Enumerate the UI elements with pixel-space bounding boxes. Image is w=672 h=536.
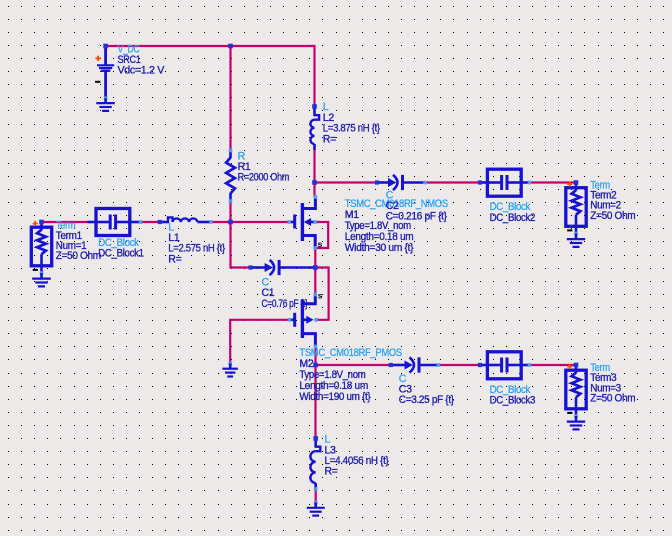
svg-text:R=2000 Ohm: R=2000 Ohm	[238, 172, 290, 184]
node L3 top	[313, 436, 318, 441]
pin M1 gate	[287, 220, 291, 224]
label M2 source s	[318, 291, 323, 301]
svg-text:Z=50 Ohm: Z=50 Ohm	[590, 210, 635, 222]
wire rail to R1	[229, 46, 231, 151]
ground of Term2	[574, 232, 578, 236]
node M2 drain junction	[313, 363, 318, 368]
pin M2 source	[314, 293, 318, 297]
wire L2 to M1 drain	[313, 150, 315, 197]
ground of Term3	[574, 414, 578, 418]
wire input row Term1-DC_Block1	[42, 221, 88, 223]
node rail-R1	[228, 44, 233, 49]
svg-text:R=: R=	[325, 466, 338, 478]
wire L1 to M1 gate	[211, 221, 289, 223]
node drain junction	[312, 180, 317, 185]
pin DC_Block2 left	[478, 180, 482, 184]
wire M2 drain down to L3	[314, 347, 316, 439]
svg-text:s: s	[318, 239, 323, 249]
DC block DC_Block2	[479, 169, 531, 196]
transistor M2 PMOS	[290, 295, 316, 347]
svg-text:Width=190 um {t}: Width=190 um {t}	[299, 391, 371, 403]
node Term3 top	[574, 363, 579, 368]
label Term2	[590, 179, 635, 222]
label M2	[299, 347, 402, 403]
pin M1 bulk	[313, 220, 317, 224]
node L1 left	[158, 220, 162, 224]
wire DC_Block1-L1	[141, 221, 159, 223]
pin M2 bulk	[314, 318, 318, 322]
DC block DC_Block3	[479, 352, 531, 379]
label L2	[323, 101, 381, 145]
svg-text:R=: R=	[168, 253, 181, 265]
label SRC1	[118, 43, 166, 76]
wire C2 to DC_Block2	[425, 181, 480, 183]
ground of SRC1	[104, 97, 108, 101]
label L1	[168, 221, 225, 265]
label M1	[345, 198, 448, 254]
pin DC_Block2 right	[528, 181, 532, 185]
inductor L2	[310, 107, 319, 150]
label Term3	[590, 362, 635, 405]
pin R1 top	[229, 149, 233, 153]
node source junction	[313, 265, 318, 270]
pin L1 right	[209, 220, 213, 224]
pin C2 right	[423, 181, 427, 185]
ground of Term1	[40, 271, 44, 275]
inductor L3	[310, 439, 320, 490]
port Term2	[566, 181, 586, 233]
label M1 source s	[318, 239, 323, 249]
svg-text:C=0.216 pF {t}: C=0.216 pF {t}	[386, 211, 448, 223]
svg-text:Vdc=1.2 V: Vdc=1.2 V	[118, 65, 166, 77]
transistor M1 NMOS	[289, 197, 315, 248]
node C3 left	[389, 363, 393, 367]
resistor R1	[226, 151, 235, 202]
pin M2 drain	[314, 345, 318, 349]
svg-text:DC_Block1: DC_Block1	[98, 248, 144, 260]
node Term1 top	[39, 220, 44, 225]
pin R1 bottom	[229, 199, 233, 203]
node L2 top	[312, 104, 317, 109]
wire M1 source to M2 source	[314, 248, 316, 294]
pin DC_Block3 right	[528, 363, 532, 367]
node gate row junction	[228, 220, 233, 225]
wire VDD rail	[106, 46, 315, 106]
capacitor C2	[377, 175, 425, 190]
port Term3	[566, 364, 586, 416]
wire DC_Block2 to Term2	[530, 181, 577, 183]
DC block DC_Block1	[88, 209, 140, 236]
node C1 left	[248, 265, 252, 269]
node SRC1 top	[103, 44, 108, 49]
node Term2 top	[574, 180, 579, 185]
svg-text:Z=50 Ohm: Z=50 Ohm	[590, 393, 635, 405]
svg-text:s: s	[318, 291, 323, 301]
label DC_Block1	[98, 237, 144, 260]
pin DC_Block1 right	[139, 220, 143, 224]
svg-text:DC_Block3: DC_Block3	[490, 395, 536, 407]
ground of M2 gate	[228, 362, 232, 366]
pin L3 bottom	[314, 487, 318, 491]
label R1	[238, 150, 290, 183]
label DC_Block2	[490, 201, 536, 224]
DC source SRC1	[95, 48, 114, 98]
wire R1 to C1 corner	[231, 201, 251, 268]
pin M1 drain	[314, 195, 318, 199]
pin M2 gate	[288, 318, 292, 322]
label C3	[399, 373, 455, 406]
svg-text:C=3.25 pF {t}: C=3.25 pF {t}	[399, 394, 455, 406]
pin M1 source	[313, 246, 317, 250]
ground of L3	[314, 501, 318, 505]
wire DC_Block3 to Term3	[530, 364, 577, 366]
capacitor C1	[251, 260, 316, 275]
svg-text:TSMC_CM018RF_PMOS: TSMC_CM018RF_PMOS	[299, 347, 402, 359]
wire L3 to ground	[315, 489, 317, 503]
capacitor C3	[391, 357, 439, 372]
wire drain node to C2	[315, 181, 378, 183]
wire node to C3	[316, 364, 391, 366]
inductor L1	[160, 217, 211, 222]
svg-text:DC_Block2: DC_Block2	[490, 212, 536, 224]
pin DC_Block3 left	[478, 363, 482, 367]
wire M2 gate to ground	[230, 320, 289, 364]
svg-text:R=: R=	[323, 133, 336, 145]
node C2 left	[375, 180, 379, 184]
label C1	[262, 276, 309, 309]
wire M1 bulk to source	[315, 222, 328, 248]
svg-text:Width=30 um {t}: Width=30 um {t}	[345, 242, 414, 254]
svg-text:Z=50 Ohm: Z=50 Ohm	[56, 250, 101, 262]
label DC_Block3	[490, 384, 536, 407]
wire C3 to DC_Block3	[439, 364, 481, 366]
pin C3 right	[437, 363, 441, 367]
port Term1	[31, 221, 51, 273]
label C2	[386, 189, 448, 222]
label Term1	[56, 220, 101, 263]
wire M2 bulk loop	[315, 268, 328, 320]
label L3	[325, 434, 390, 478]
